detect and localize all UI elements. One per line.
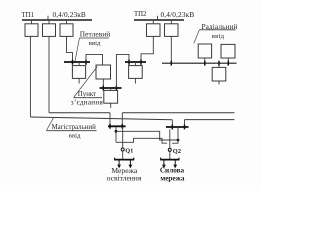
junction dash on bar R right <box>184 125 186 130</box>
busbar TP1 0.4kV <box>22 19 92 21</box>
switchboard bar R <box>166 126 189 128</box>
junction dash on bar L right <box>121 124 123 129</box>
stub bar2 to square F <box>134 62 136 66</box>
svg-text:освітлення: освітлення <box>107 174 142 183</box>
stub radial line to square E <box>218 63 220 67</box>
junction dash on bar1 right <box>85 60 87 65</box>
lower trunk line right part <box>185 119 235 121</box>
switch Q1 contact circle <box>121 148 124 151</box>
switch Q2 wire from bar R <box>169 129 171 148</box>
terminal bar of lighting network <box>114 159 134 161</box>
feeder cell square S5 (TP2) <box>165 24 179 37</box>
svg-text:зʼєднання: зʼєднання <box>71 99 104 107</box>
junction dash on bar3 right <box>115 86 117 91</box>
node dot on bar L drop <box>115 130 118 133</box>
pin stub S2 to bus <box>48 20 50 24</box>
switchboard bar L <box>108 125 126 127</box>
drop lower trunk to bar R (left) <box>171 120 173 127</box>
loop wire bar 1 (petlevyi vvid) <box>64 61 90 63</box>
wire bar L center drop <box>115 127 117 142</box>
lower trunk line (from S1), broken at bar R <box>30 117 172 120</box>
end tick left (lighting terminal) <box>114 158 116 160</box>
feeder cell square S1 (TP1) <box>25 24 38 37</box>
switch Q2 contact circle <box>168 148 171 151</box>
connection point square B <box>96 65 111 79</box>
open stub below square E <box>218 81 220 84</box>
junction dash on bar2 left <box>128 60 130 65</box>
svg-text:ввід: ввід <box>69 132 81 139</box>
end tick right (lighting terminal) <box>133 158 135 160</box>
node dot at bar R drop <box>177 139 180 142</box>
svg-text:Магістральний: Магістральний <box>52 124 97 131</box>
svg-text:мережа: мережа <box>160 174 184 182</box>
radial input square C <box>198 44 211 58</box>
underline of label Petlevyi <box>79 37 109 39</box>
feeder cell square S3 (TP1) <box>60 24 73 37</box>
junction dash D on radial line <box>227 61 229 66</box>
tie wire bar L to bar R (upper route) <box>116 131 178 140</box>
switch Q2 wire to terminal <box>169 152 171 160</box>
end tick right (power terminal) <box>178 158 180 160</box>
tie wire lower route with step <box>116 138 167 143</box>
wire bar R center drop <box>177 127 179 140</box>
wire S2 down to upper trunk line <box>48 36 50 112</box>
arrow left (lighting feeder) <box>118 160 120 165</box>
arrow right (lighting feeder) <box>129 160 131 165</box>
end tick left (power terminal) <box>160 158 162 160</box>
open stub below square F <box>134 78 136 83</box>
svg-text:ТП1: ТП1 <box>22 12 34 19</box>
leader line Petlevyi to bar1 <box>75 38 79 61</box>
wire square D to radial line <box>227 58 229 63</box>
feeder cell square S2 (TP1) <box>43 24 56 37</box>
svg-text:ТП2: ТП2 <box>134 11 147 18</box>
wire S5 down to radial line <box>170 36 172 63</box>
junction dash S5 on radial line <box>170 61 172 66</box>
underline of label Radialnyi <box>199 29 235 31</box>
svg-text:ввід: ввід <box>212 33 225 40</box>
building switchboard square G <box>104 90 118 103</box>
voltage tick on TP2 bus <box>157 16 159 20</box>
open stub below square G <box>110 103 112 108</box>
svg-text:Пункт: Пункт <box>78 91 96 98</box>
building switchboard square F <box>129 66 143 79</box>
drop upper trunk to bar L (right) <box>121 113 123 127</box>
junction dash on bar1 left <box>72 60 74 65</box>
junction dash C on radial line <box>204 61 206 66</box>
junction dash on bar L left <box>109 124 111 129</box>
radial feeder line <box>162 62 237 64</box>
leader line Radialnyi to square C <box>194 30 200 44</box>
switch Q1 wire from bar L <box>122 127 124 148</box>
wire S4 down with jog to loop bar 2 <box>141 36 153 62</box>
underline of label Punkt <box>74 97 102 99</box>
terminal bar of power network <box>160 159 179 161</box>
leader line Mahistralnyi to lower trunk <box>46 118 53 131</box>
svg-text:Петлевий: Петлевий <box>80 29 110 38</box>
wire S1 down to lower trunk line <box>29 36 31 117</box>
svg-text:0,4/0,23кВ: 0,4/0,23кВ <box>161 10 195 19</box>
svg-text:Q2: Q2 <box>173 148 181 155</box>
wire bar3 up-over to loop bar 2 <box>116 54 129 88</box>
wire square C to radial line <box>204 58 206 63</box>
radial input square D <box>221 44 235 58</box>
stub bar1 to square A <box>78 62 80 66</box>
building switchboard square A <box>72 66 85 79</box>
drop lower trunk to bar R (right) <box>184 120 186 127</box>
leader line Punkt to square B <box>74 67 98 98</box>
wire square B down to loop bar 3 <box>102 79 104 88</box>
busbar TP2 0.4kV <box>134 19 184 21</box>
arrow right (power feeder) <box>174 160 176 165</box>
pin stub S1 to bus <box>31 20 33 24</box>
wire bar1 up-over to square B <box>86 54 103 65</box>
stub bar3 to square G <box>110 88 112 90</box>
drop upper trunk to bar L (left) <box>109 113 111 127</box>
svg-text:0,4/0,23кВ: 0,4/0,23кВ <box>53 10 86 19</box>
distribution square E below radial line <box>212 67 226 81</box>
junction dash on bar2 right <box>140 60 142 65</box>
tie wire lower route after break at Q2 <box>172 140 178 143</box>
underline of label Mahistralnyi <box>46 130 96 132</box>
upper trunk line right part <box>122 112 234 114</box>
junction dash E on radial line <box>218 61 220 66</box>
loop wire bar 3 <box>100 87 122 89</box>
wire S3 down with jog to loop bar 1 <box>67 36 73 62</box>
svg-text:ввід: ввід <box>89 40 101 47</box>
pin stub S4 to bus <box>152 20 154 24</box>
arrow left (power feeder) <box>163 160 165 165</box>
voltage tick on TP1 bus <box>47 16 49 20</box>
upper trunk line (from S2), broken at bar L <box>49 112 110 114</box>
switch Q1 wire to terminal <box>122 151 124 160</box>
svg-text:Q1: Q1 <box>125 148 133 155</box>
pin stub S3 to bus <box>66 20 68 24</box>
feeder cell square S4 (TP2) <box>147 24 161 37</box>
junction dash on bar R left <box>171 125 173 130</box>
loop wire bar 2 <box>125 61 146 63</box>
junction dash on bar3 left <box>102 86 104 91</box>
pin stub S5 to bus <box>170 20 172 24</box>
open stub below square A <box>78 78 80 83</box>
